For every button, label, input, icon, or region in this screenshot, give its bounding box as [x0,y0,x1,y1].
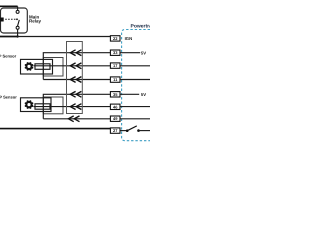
svg-text:CKP Sensor: CKP Sensor [0,54,17,59]
relay switch top contact [16,10,19,13]
pin 49 [110,116,120,121]
wire (pin 33 to 5V ref) [120,52,140,54]
wire (switch onward) [139,130,151,132]
twisted pair marker row 46 [70,104,81,110]
svg-text:33: 33 [113,51,118,56]
pin 17 [110,63,120,68]
wire (battery feed to relay switch, top) [0,5,18,7]
svg-text:CMP Sensor: CMP Sensor [0,95,17,100]
twisted pair marker row 17 [70,63,81,69]
wire (pin 11 internal) [120,79,150,81]
wire (down into relay top terminal) [17,6,19,10]
pin 22 [110,36,120,41]
pin 46 [110,104,120,109]
pin 11 [110,77,120,82]
svg-text:49: 49 [113,117,118,122]
twisted pair marker row 49 [68,116,79,122]
svg-text:Relay: Relay [29,19,41,24]
wire (ground/brake line to pin 27, thick) [0,128,110,130]
wire (pin 27 to switch) [120,130,127,132]
twisted pair marker row 33 [70,50,81,56]
svg-text:22: 22 [113,36,118,41]
sensor CMP reluctor gear icon [25,100,34,109]
sensor CKP shield boundary rect [43,58,63,77]
wire (IGN power to PCM pin 22) [18,36,111,38]
pin 35 [110,92,120,97]
wire (sensor CMP low lead to pin 49) [43,118,110,120]
wire (coil actuation dashed link) [5,18,16,20]
sensor CMP shield boundary rect [43,97,63,114]
wire (sensor CMP top lead to pin 35) [43,94,110,119]
pin 33 [110,50,120,55]
relay U1 Main Relay body [1,8,28,33]
wire (battery feed from left, thick) [0,36,18,38]
svg-text:IGN: IGN [125,36,133,41]
wire (pin 49 internal) [120,118,150,120]
svg-text:5V: 5V [141,92,146,97]
wire (sensor CKP low lead to pin 11) [43,79,110,81]
wire (pin 46 internal) [120,106,150,108]
wire (pin 17 internal) [120,65,150,67]
svg-text:35: 35 [113,92,118,97]
svg-text:5V: 5V [141,50,146,55]
svg-text:27: 27 [113,129,118,134]
node junction at relay output [16,35,18,37]
wire (sensor CMP output to pin 46) [34,106,111,108]
switch S1 blade [127,126,137,131]
sensor CKP reluctor gear icon [25,62,34,71]
wire (sensor CKP top lead to pin 33) [43,53,110,80]
svg-text:11: 11 [113,78,118,83]
sensor CMP connector plug [35,104,50,109]
sensor CKP connector plug [35,64,50,70]
relay coil L1 [0,18,4,22]
svg-text:Powertrain Control Module: Powertrain Control Module [131,24,151,30]
relay switch blade [18,20,20,26]
svg-text:17: 17 [113,64,118,69]
sensor CMP body [21,98,52,112]
svg-text:46: 46 [113,105,118,110]
wire (pin 35 to 5V ref) [120,93,139,95]
pin 27 [110,128,120,133]
shield box around twisted pairs [67,42,83,114]
switch S1 right contact [137,129,140,132]
relay switch bottom contact [16,26,19,29]
wire (relay bottom terminal down) [17,29,19,36]
twisted pair marker row 11 [70,77,81,83]
Powertrain Control Module dashed boundary [122,30,150,141]
sensor CKP body [21,59,53,74]
twisted pair marker row 35 [70,91,81,97]
wire (sensor CKP output through connector) [34,65,111,67]
switch S1 left contact [126,129,129,132]
